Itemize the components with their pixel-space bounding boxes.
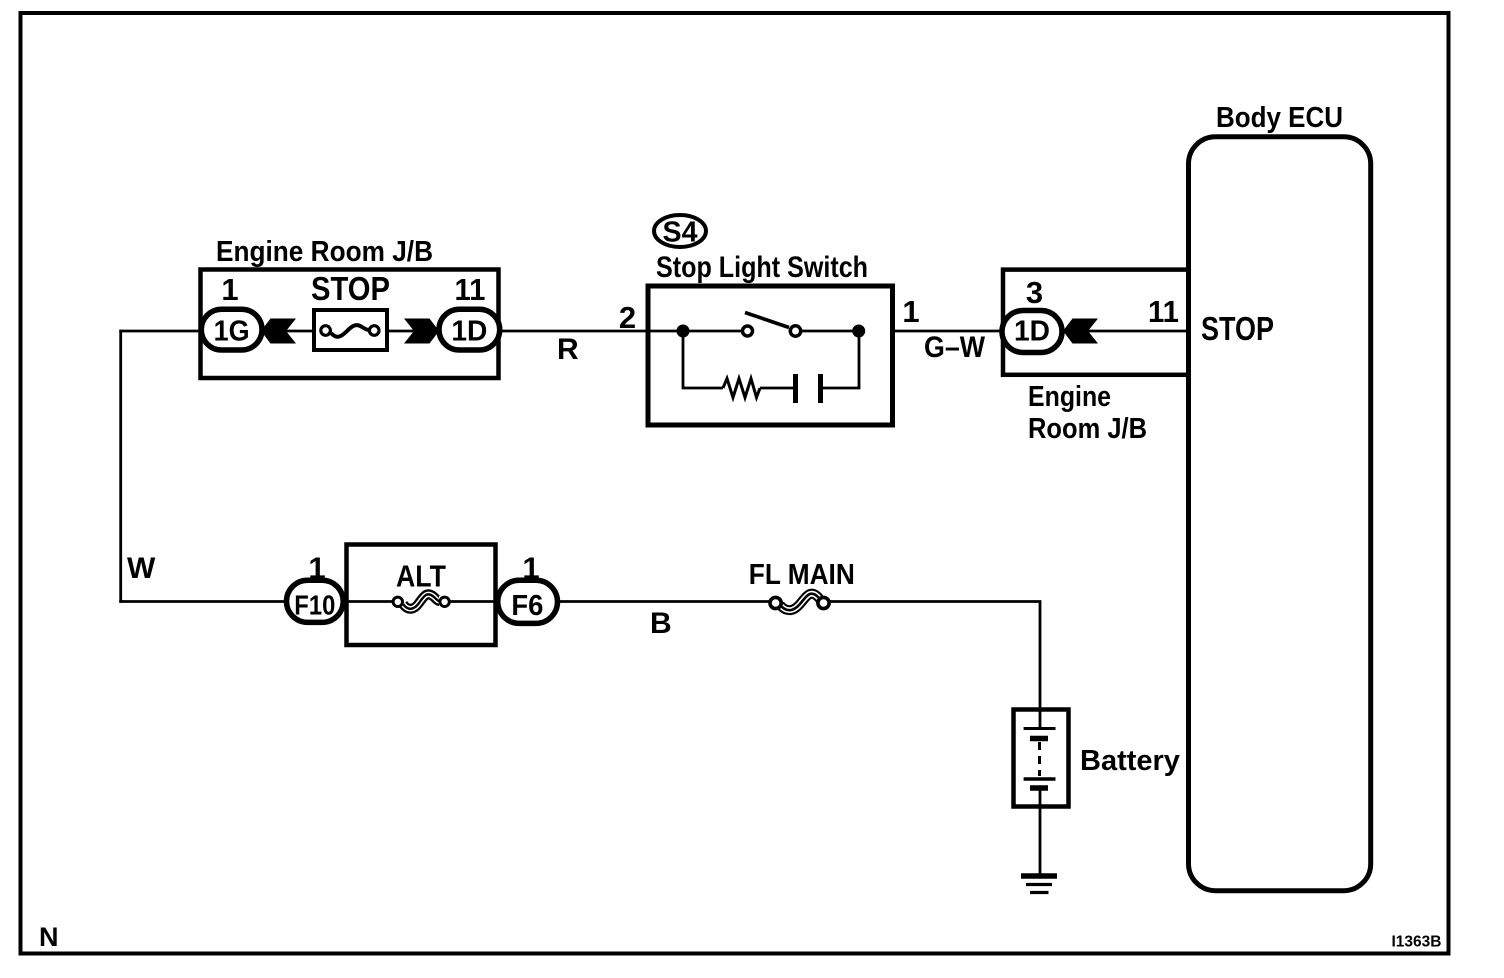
label FL MAIN [749, 559, 855, 591]
pin 11 [455, 272, 486, 307]
stop light switch S4 box [648, 286, 893, 425]
wire in ALT box left [315, 600, 393, 603]
svg-text:11: 11 [1148, 294, 1179, 329]
svg-text:Room J/B: Room J/B [1028, 413, 1147, 445]
label Engine Room J/B right [1028, 381, 1147, 445]
pin 3 [1026, 275, 1043, 310]
label Battery [1080, 745, 1180, 777]
switch contact left [743, 326, 753, 336]
wire capacitor to node [823, 331, 859, 388]
arrow into 1D [404, 319, 439, 344]
pin 1 F6 [522, 551, 539, 586]
wire F6 to FL MAIN [558, 600, 773, 603]
ground [1021, 876, 1057, 893]
label ALT [396, 559, 446, 594]
svg-text:3: 3 [1026, 275, 1043, 310]
label STOP fuse [311, 270, 390, 307]
wire to left contact [683, 330, 742, 333]
wire resistor to capacitor [760, 387, 793, 390]
Body ECU U1 [1189, 137, 1371, 891]
arrow into 1G [261, 319, 296, 344]
label Stop Light Switch [656, 251, 868, 284]
node left junction [677, 325, 690, 338]
svg-text:S4: S4 [663, 217, 698, 249]
pin 1 switch [902, 294, 919, 329]
svg-text:1: 1 [221, 272, 238, 307]
svg-text:ALT: ALT [396, 559, 446, 594]
svg-text:1: 1 [902, 294, 919, 329]
capacitor plates [796, 374, 821, 403]
svg-text:F6: F6 [511, 590, 543, 622]
svg-text:1G: 1G [214, 315, 250, 347]
fuse STOP element [321, 325, 379, 337]
pin 1 [221, 272, 238, 307]
svg-text:B: B [650, 607, 672, 640]
battery BAT1 [1014, 710, 1069, 807]
connector F6 [498, 580, 558, 623]
svg-text:1D: 1D [451, 315, 487, 347]
label Engine Room J/B [216, 236, 433, 268]
resistor in switch [723, 379, 760, 398]
svg-text:STOP: STOP [311, 270, 390, 307]
label Body ECU [1216, 102, 1343, 134]
pin 2 [619, 300, 636, 335]
fuse ALT box [347, 545, 496, 646]
pin 1 F10 [308, 551, 325, 586]
fuse STOP box [314, 310, 387, 350]
label I1363B [1392, 934, 1442, 951]
wire 1G to STOP fuse [262, 330, 316, 333]
pin STOP label in ECU [1201, 310, 1274, 347]
wire label B [650, 607, 672, 640]
wire right contact to node [801, 330, 859, 333]
svg-text:Engine Room J/B: Engine Room J/B [216, 236, 433, 268]
label N [39, 922, 59, 952]
svg-text:FL MAIN: FL MAIN [749, 559, 855, 591]
svg-text:Stop Light Switch: Stop Light Switch [656, 251, 868, 284]
connector 1D [439, 309, 500, 350]
connector 1G [201, 309, 262, 350]
pin 11 right [1148, 294, 1179, 329]
svg-text:Engine: Engine [1028, 381, 1111, 413]
svg-text:I1363B: I1363B [1392, 934, 1442, 951]
connector 1D right [1002, 311, 1062, 353]
S4 oval [654, 215, 706, 249]
fuse ALT element [393, 594, 449, 608]
switch contact right [790, 326, 800, 336]
wire battery to ground [1039, 806, 1042, 876]
switch lever [745, 313, 789, 328]
svg-text:11: 11 [455, 272, 486, 307]
svg-text:N: N [39, 922, 59, 952]
fusible link FL MAIN [770, 594, 829, 611]
Engine Room J/B box (right) [1003, 270, 1189, 375]
wire 1G feed [119, 330, 232, 333]
svg-text:STOP: STOP [1201, 310, 1274, 347]
svg-text:F10: F10 [294, 590, 335, 621]
wire FL MAIN to battery [829, 602, 1040, 712]
Engine Room J/B box (left) [201, 270, 499, 379]
svg-text:Body ECU: Body ECU [1216, 102, 1343, 134]
wire label R [557, 333, 579, 366]
arrow into 1D right [1063, 319, 1098, 344]
wire W vertical [119, 330, 122, 603]
node right junction [852, 325, 865, 338]
svg-text:R: R [557, 333, 579, 366]
wire R: 1D to switch box [499, 330, 683, 333]
wire fuse to 1D [388, 330, 438, 333]
wire switch to 1D [892, 330, 1003, 333]
wire branch left drop [683, 331, 723, 388]
wire label G-W [924, 331, 986, 364]
svg-text:1D: 1D [1014, 316, 1050, 348]
wire W to F10 [119, 600, 315, 603]
wire in ALT box right [449, 600, 558, 603]
svg-text:W: W [127, 552, 156, 585]
connector F10 [287, 580, 344, 622]
wire label W [127, 552, 156, 585]
svg-text:G–W: G–W [924, 331, 986, 364]
wire 1D to ECU [1062, 330, 1188, 333]
svg-text:Battery: Battery [1080, 745, 1180, 777]
svg-text:2: 2 [619, 300, 636, 335]
